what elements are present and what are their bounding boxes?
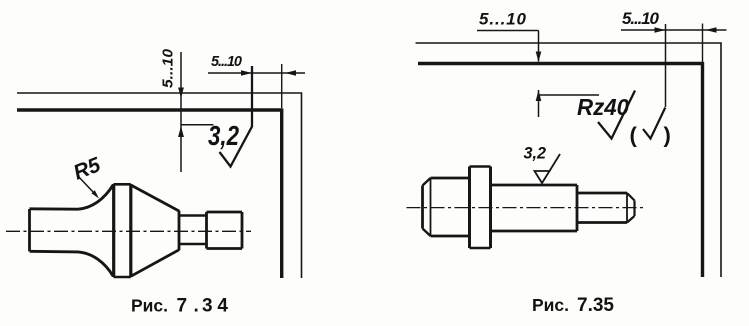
svg-text:R5: R5 (70, 153, 104, 185)
svg-text:.: . (194, 296, 199, 317)
svg-text:Рис.: Рис. (131, 296, 168, 316)
svg-text:5...10: 5...10 (479, 10, 527, 29)
svg-text:): ) (664, 123, 671, 148)
svg-text:5...10: 5...10 (211, 54, 242, 70)
svg-text:34: 34 (202, 296, 228, 317)
svg-text:Rz40: Rz40 (577, 94, 629, 120)
svg-text:3,2: 3,2 (524, 145, 547, 163)
svg-text:Рис.: Рис. (532, 295, 569, 315)
svg-text:5...10: 5...10 (161, 49, 177, 88)
svg-text:7: 7 (177, 296, 188, 317)
svg-text:7.35: 7.35 (577, 295, 614, 316)
svg-text:5...10: 5...10 (622, 9, 660, 28)
svg-text:(: ( (630, 123, 638, 148)
svg-text:3,2: 3,2 (208, 120, 239, 151)
